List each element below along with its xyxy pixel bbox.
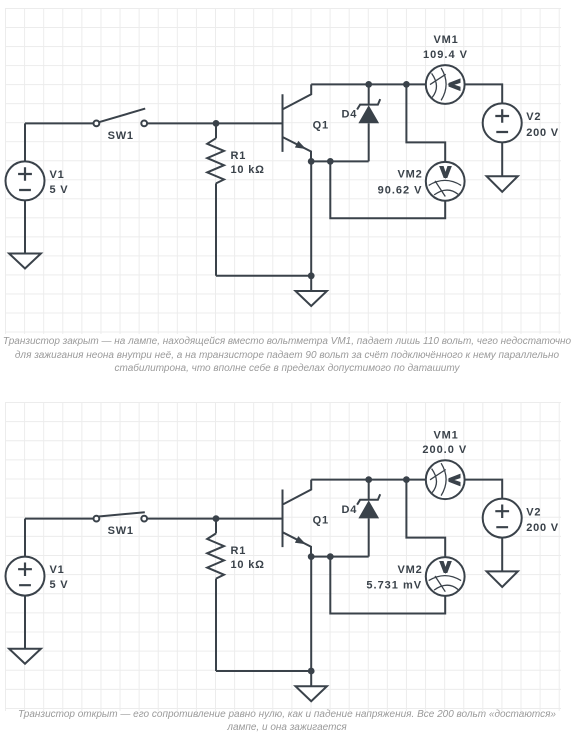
svg-text:5.731 mV: 5.731 mV bbox=[366, 579, 422, 591]
svg-text:200.0 V: 200.0 V bbox=[422, 444, 467, 456]
svg-text:90.62 V: 90.62 V bbox=[378, 184, 423, 196]
svg-text:109.4 V: 109.4 V bbox=[423, 49, 468, 61]
